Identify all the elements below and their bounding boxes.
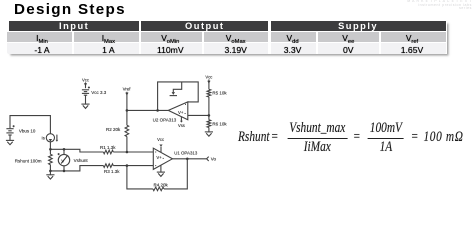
svg-text:V+: V+ bbox=[156, 155, 162, 160]
svg-text:R5 10k: R5 10k bbox=[212, 91, 227, 96]
svg-text:Vcc: Vcc bbox=[157, 137, 164, 142]
svg-text:R3 1.3k: R3 1.3k bbox=[104, 169, 120, 174]
svg-text:Vo: Vo bbox=[211, 157, 217, 162]
svg-text:R6 10k: R6 10k bbox=[212, 121, 227, 126]
svg-text:Rshunt 100m: Rshunt 100m bbox=[15, 158, 42, 163]
svg-text:R4 20k: R4 20k bbox=[154, 182, 169, 187]
svg-text:Vss: Vss bbox=[178, 123, 185, 128]
svg-text:U1 OPA313: U1 OPA313 bbox=[174, 151, 198, 156]
svg-text:R1 1.3k: R1 1.3k bbox=[100, 145, 116, 150]
svg-text:Vref: Vref bbox=[123, 87, 132, 92]
svg-text:Vshunt: Vshunt bbox=[74, 158, 89, 163]
svg-text:Vcc: Vcc bbox=[82, 78, 89, 83]
svg-text:Vcc: Vcc bbox=[205, 74, 212, 79]
svg-text:V+: V+ bbox=[178, 110, 184, 115]
svg-text:Vcc 3.3: Vcc 3.3 bbox=[91, 90, 107, 95]
svg-text:Vbus 10: Vbus 10 bbox=[19, 128, 36, 133]
svg-text:Is: Is bbox=[42, 136, 45, 141]
svg-text:R2 20k: R2 20k bbox=[106, 127, 121, 132]
svg-text:U2 OPA313: U2 OPA313 bbox=[153, 117, 177, 122]
